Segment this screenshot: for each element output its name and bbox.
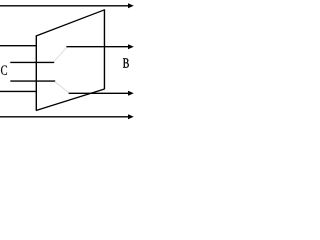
wire output B xyxy=(66,46,129,48)
wire bottom bus line (passes below funnel) xyxy=(0,116,129,118)
wire input 2 (bus C upper) xyxy=(10,61,54,63)
arrowhead output lower xyxy=(128,91,134,96)
label B (serif glyph outline) xyxy=(123,58,129,67)
wire faint diagonal riser lower xyxy=(55,82,69,93)
arrowhead output B xyxy=(128,44,134,49)
arrowhead bottom right xyxy=(128,114,134,119)
funnel U1 bottom edge xyxy=(36,89,105,111)
funnel U1 top edge xyxy=(36,10,105,36)
arrowhead top right xyxy=(128,3,134,8)
funnel U1 right edge xyxy=(103,9,105,89)
wire faint diagonal riser upper xyxy=(54,48,67,62)
wire input 1 xyxy=(0,45,36,47)
wire input 3 (bus C lower) xyxy=(10,80,55,82)
wire input 4 xyxy=(0,90,36,92)
wire top bus line (passes above funnel) xyxy=(0,5,129,7)
wire output lower xyxy=(69,92,129,94)
label C (serif glyph outline) xyxy=(1,65,7,74)
funnel U1 left edge xyxy=(35,35,37,110)
